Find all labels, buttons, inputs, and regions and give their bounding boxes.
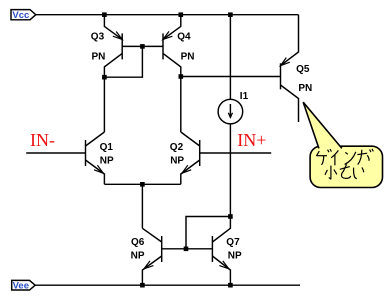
junction Q3-Q4 base tie [140, 44, 145, 49]
wire Q3-Q4 base tie [122, 45, 163, 47]
svg-text:PN: PN [298, 83, 312, 94]
wire tail node [104, 183, 180, 185]
svg-text:Q2: Q2 [170, 142, 184, 153]
svg-text:Q5: Q5 [296, 64, 310, 75]
junction I1 to Q7 collector [228, 214, 233, 219]
wire base tie to Q3 collector [104, 46, 142, 77]
junction Q6-Q7 base tie [184, 247, 189, 252]
svg-text:IN+: IN+ [237, 130, 266, 150]
callout text line1 ゲインが [316, 149, 373, 165]
wire Q6-Q7 base tie [162, 248, 213, 250]
wire Vee rail [35, 284, 300, 286]
callout balloon [303, 102, 382, 187]
transistor Q2 [170, 132, 200, 184]
junction Q3 collector diode tie [102, 75, 107, 80]
transistor Q4 [163, 15, 195, 132]
transistor Q3 [91, 15, 122, 132]
svg-text:Vee: Vee [13, 280, 29, 291]
wire mirror tie to I1 node [186, 217, 230, 249]
junction Q6 emitter at Vee rail [140, 283, 145, 288]
junction I1 at Vcc rail [228, 12, 233, 17]
wire Vcc rail [36, 14, 299, 16]
svg-text:Q6: Q6 [131, 237, 145, 248]
svg-text:Vcc: Vcc [12, 10, 29, 21]
callout text line2 小さい [325, 164, 364, 179]
junction Q4 collector to Q5 base [179, 74, 184, 79]
svg-text:NP: NP [131, 251, 145, 262]
svg-text:Q1: Q1 [100, 142, 114, 153]
transistor Q6 [131, 228, 162, 285]
svg-text:PN: PN [92, 51, 106, 62]
svg-text:Q7: Q7 [226, 237, 240, 248]
current source I1 [218, 15, 248, 217]
svg-text:IN-: IN- [30, 130, 55, 150]
svg-text:Q3: Q3 [91, 32, 105, 43]
junction Q3 emitter at Vcc rail [102, 12, 107, 17]
junction Q7 emitter at Vee rail [228, 283, 233, 288]
junction tail node [140, 182, 145, 187]
svg-text:Q4: Q4 [177, 32, 191, 43]
junction Q4 emitter at Vcc rail [179, 12, 184, 17]
transistor Q1 [86, 132, 115, 184]
wire IN- input [26, 152, 85, 154]
svg-text:NP: NP [228, 251, 242, 262]
svg-text:NP: NP [170, 156, 184, 167]
wire IN+ input [200, 152, 272, 154]
wire tail to Q6 collector [141, 184, 143, 228]
svg-text:PN: PN [181, 51, 195, 62]
svg-text:I1: I1 [240, 91, 249, 102]
power flag Vee [12, 280, 36, 291]
transistor Q7 [212, 217, 242, 286]
transistor Q5 [281, 15, 313, 122]
wire Q5 base [181, 76, 281, 78]
svg-text:NP: NP [100, 155, 114, 166]
power flag Vcc [11, 10, 36, 22]
